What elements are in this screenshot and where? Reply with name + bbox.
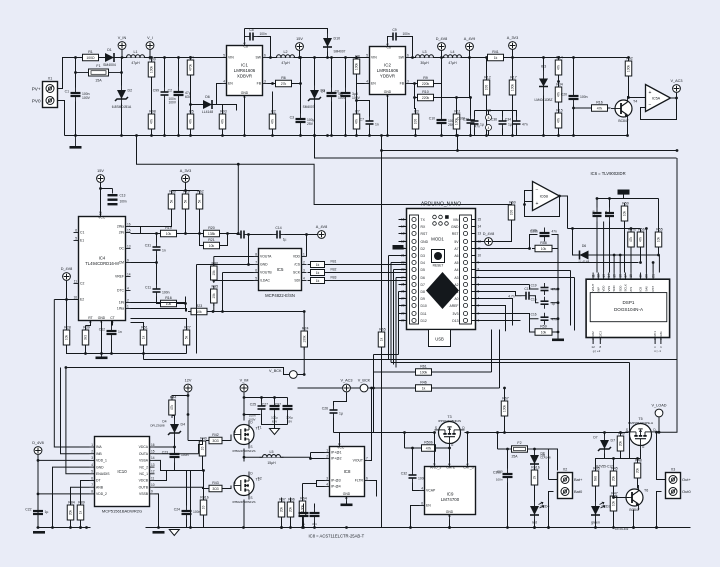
svg-text:13: 13 (478, 232, 482, 236)
wire C12 up (111, 321, 113, 326)
wire C29 up (314, 504, 316, 508)
wire EN dn (411, 506, 420, 528)
svg-text:ENA/DIS: ENA/DIS (96, 472, 110, 476)
svg-text:VCC: VCC (98, 216, 106, 220)
resistor R44 (169, 396, 177, 419)
svg-text:11: 11 (151, 476, 155, 480)
svg-text:YDBVR: YDBVR (380, 74, 395, 79)
wire VOUTA to R96 (213, 257, 215, 266)
junction (557, 80, 560, 83)
wire disp bottom stub (660, 338, 662, 345)
svg-text:100k: 100k (627, 65, 631, 73)
junction (242, 526, 245, 529)
svg-text:1µ: 1µ (508, 123, 512, 127)
wire D8 to R51 (534, 469, 536, 470)
wire A_3V3 stub (512, 50, 514, 58)
resistor R98 (148, 110, 156, 133)
svg-text:6k8: 6k8 (594, 476, 598, 481)
wire C26 dn (333, 418, 335, 433)
wire arduino right stub (472, 226, 476, 228)
junction (533, 448, 536, 451)
svg-text:C99: C99 (153, 89, 159, 93)
wire FLTR dn (370, 481, 377, 497)
wire y362 run (391, 362, 630, 364)
svg-text:C25: C25 (250, 403, 256, 407)
svg-text:10: 10 (478, 254, 482, 258)
junction (528, 247, 531, 250)
svg-text:D4: D4 (421, 261, 425, 265)
wire 1INa row (131, 309, 187, 312)
svg-text:138k: 138k (208, 232, 216, 236)
wire ANODE up (434, 433, 436, 462)
wire R41 to right (505, 57, 573, 59)
junction (177, 134, 180, 137)
wire disp VDD up (603, 222, 605, 273)
wire R48 to T6 collector (637, 479, 639, 489)
wire disp RST up (658, 255, 660, 273)
svg-text:47µH: 47µH (131, 61, 140, 65)
svg-text:DFLZ9188: DFLZ9188 (150, 424, 165, 428)
junction (636, 457, 639, 460)
svg-text:C3: C3 (290, 116, 294, 120)
junction (456, 134, 459, 137)
wire R51 col down (143, 354, 145, 360)
svg-text:GND: GND (98, 316, 106, 320)
wire C20b left (530, 235, 538, 249)
wire R27 dn (186, 346, 188, 354)
capacitor C9 (389, 28, 401, 41)
capacitor C36 (491, 117, 512, 129)
diode D1 (101, 48, 119, 67)
wire F2 to X2 (535, 449, 558, 471)
wire C30 dn (474, 129, 476, 136)
svg-text:C6: C6 (335, 90, 339, 94)
capacitor C29 (310, 508, 320, 522)
svg-text:R96: R96 (288, 498, 295, 502)
wire C99 to gnd (164, 100, 166, 136)
wire T1 drain up (243, 415, 245, 421)
svg-text:47k: 47k (629, 236, 633, 242)
svg-text:D11: D11 (421, 312, 427, 316)
wire R57 up (630, 229, 632, 232)
resistor R89 (77, 501, 85, 524)
svg-text:LMR61606: LMR61606 (234, 68, 256, 73)
transistor T4 (611, 96, 637, 123)
wire arduino left stub (399, 277, 407, 279)
wire X1 to R1 (58, 58, 83, 89)
junction (571, 227, 574, 230)
node V_BCK (289, 371, 297, 379)
wire VSSB dn (155, 494, 159, 528)
wire C19 left (530, 285, 539, 290)
wire arduino left stub (399, 255, 407, 257)
IC IC10 (90, 437, 155, 507)
svg-text:LL4148: LL4148 (541, 456, 551, 460)
svg-text:VOUT: VOUT (591, 283, 595, 291)
resistor R42 (206, 433, 225, 444)
svg-text:100: 100 (414, 119, 418, 125)
junction (645, 227, 648, 230)
svg-text:20: 20 (645, 274, 649, 278)
svg-text:GATE: GATE (446, 466, 456, 470)
junction (619, 254, 622, 257)
wire R45 up (613, 459, 615, 471)
node 15V (97, 169, 105, 182)
wire T4 emitter dn (627, 121, 629, 136)
LED LED4 (530, 502, 550, 520)
wire arduino right stub (472, 262, 476, 264)
wire IC2 top to C9 (388, 37, 389, 42)
resistor R50 (621, 202, 629, 225)
svg-text:R16: R16 (165, 296, 172, 300)
svg-text:100n: 100n (120, 200, 127, 204)
wire x629 dn to T5 gate node (629, 363, 631, 459)
svg-text:GND: GND (343, 492, 351, 496)
resistor R21 (201, 238, 223, 249)
resistor R93 (219, 110, 227, 133)
resistor R95 (592, 467, 600, 490)
svg-text:R96: R96 (212, 262, 219, 266)
resistor R12 (483, 76, 491, 99)
wire D4 dn (174, 438, 176, 449)
wire C100 up (470, 98, 472, 116)
junction (305, 233, 308, 236)
svg-text:D6: D6 (582, 244, 586, 248)
svg-text:6: 6 (366, 476, 368, 480)
wire R16 left (574, 107, 591, 109)
wire R17 up (512, 58, 514, 80)
wire arduino right stub (472, 233, 476, 235)
junction (355, 56, 358, 59)
wire disp pin up2 (619, 255, 621, 273)
svg-text:CT: CT (110, 316, 115, 320)
junction (298, 56, 301, 59)
wire 2INa link (131, 227, 141, 234)
wire R61 right (433, 371, 492, 373)
wire disp pin up4 (652, 263, 654, 273)
wire R51 up (131, 323, 144, 330)
wire link c26 (334, 432, 341, 434)
wire R51 to LED4 (534, 486, 536, 502)
svg-text:RT: RT (88, 316, 92, 320)
svg-text:DSP1: DSP1 (622, 300, 634, 305)
junction (157, 526, 160, 529)
wire 12V col dn (187, 415, 189, 441)
node A_4V8 (316, 225, 327, 238)
junction (344, 56, 347, 59)
node D_4V8 (61, 267, 73, 280)
svg-text:SDI: SDI (294, 279, 300, 283)
junction (558, 195, 561, 198)
wire IC5A feedback (641, 98, 677, 120)
wire FB to R2 (272, 92, 274, 114)
LED LED4 arrows (539, 502, 543, 504)
fuse F1 (76, 64, 122, 83)
wire IC8 VCC up (339, 433, 341, 442)
wire IC1 EN down to D6 node (217, 84, 222, 105)
wire C26 top link (334, 398, 347, 406)
svg-text:R41b: R41b (200, 496, 209, 500)
svg-text:63V: 63V (185, 95, 192, 99)
wire R3 to FB node (415, 98, 416, 114)
jumper block (393, 245, 404, 250)
wire to T5 gate (621, 450, 641, 459)
wire R52 to T4 collector (628, 77, 629, 98)
svg-text:16: 16 (151, 443, 155, 447)
svg-text:4: 4 (488, 126, 490, 130)
svg-text:R28: R28 (64, 326, 71, 330)
svg-text:R10: R10 (422, 90, 429, 94)
ground display caps (552, 339, 564, 342)
junction (676, 149, 679, 152)
svg-text:R7: R7 (355, 110, 360, 114)
svg-text:47n: 47n (552, 318, 558, 322)
wire local gnd bus (175, 470, 203, 472)
svg-text:11: 11 (74, 279, 78, 283)
wire X3 pin1 (662, 479, 666, 481)
wire R16 right (178, 303, 186, 305)
wire SW out (411, 57, 416, 59)
junction (455, 96, 458, 99)
svg-text:3V3: 3V3 (452, 312, 458, 316)
wire VIOUT up to V_BCK node (370, 388, 372, 461)
wire 1IN row (131, 302, 186, 304)
resistor R51 bottom (531, 466, 540, 489)
wire R56 dn (640, 248, 642, 263)
capacitor C32 (401, 471, 426, 483)
wire row8 drop (570, 271, 572, 326)
svg-text:2IN: 2IN (119, 231, 125, 235)
wire R6 to SW node (295, 58, 301, 84)
svg-text:100n: 100n (260, 32, 267, 36)
wire V_I stub (149, 50, 151, 58)
junction (79, 526, 82, 529)
wire D1 to L1 (119, 57, 151, 59)
wire disp bottom stub (592, 338, 594, 345)
wire R65 dn to rail (381, 348, 383, 528)
svg-text:4: 4 (421, 486, 423, 490)
wire R95 dn (213, 303, 215, 312)
svg-text:R50: R50 (622, 202, 629, 206)
junction (135, 134, 138, 137)
svg-text:R62: R62 (197, 190, 204, 194)
junction (533, 526, 536, 529)
svg-text:100n: 100n (193, 510, 201, 514)
resistor R10 (415, 90, 437, 101)
svg-text:IP+@2: IP+@2 (331, 457, 342, 461)
wire VOUTB left (223, 272, 254, 274)
svg-text:GND: GND (241, 91, 249, 95)
IC5 power pin 8 (486, 115, 492, 121)
svg-text:/CS: /CS (294, 263, 300, 267)
svg-text:12V: 12V (185, 379, 192, 383)
junction (639, 261, 642, 264)
wire F2 to X2 corner (535, 449, 549, 471)
node V_BCK probe2 (358, 379, 371, 392)
svg-text:R55: R55 (656, 228, 663, 232)
svg-text:C36: C36 (491, 118, 497, 122)
resistor R16 (589, 100, 611, 111)
junction (523, 203, 526, 206)
svg-text:−: − (649, 102, 652, 108)
svg-text:IP-@4: IP-@4 (331, 485, 341, 489)
wire C5 node up (244, 29, 246, 37)
junction (413, 82, 416, 85)
svg-text:R98: R98 (149, 110, 156, 114)
svg-text:C31: C31 (145, 244, 151, 248)
wire row14 to C16 (476, 314, 539, 319)
wire bottom gnd link (67, 346, 187, 354)
wire R9 to D_4V8 node (437, 58, 442, 84)
capacitor C14a (237, 231, 249, 239)
wire C17 to C15 (534, 296, 539, 303)
svg-text:4: 4 (91, 463, 93, 467)
wire C5 to SW node (258, 37, 271, 58)
svg-text:C9: C9 (392, 28, 396, 32)
svg-text:L2: L2 (284, 50, 288, 54)
wire C14 mid dn to IC5 GND row (248, 235, 250, 265)
wire R27 up (131, 319, 187, 330)
wire top link to D10 (245, 29, 328, 34)
wire IC5A out to V_AC3 (671, 93, 677, 98)
junction (594, 526, 597, 529)
svg-text:R51: R51 (141, 326, 148, 330)
svg-text:D6: D6 (205, 95, 210, 99)
wire C21 dn (609, 222, 611, 273)
junction (411, 447, 414, 450)
wire V_BCK right link (298, 374, 305, 376)
junction (69, 526, 72, 529)
resistor R19 (158, 226, 180, 237)
wire C24 dn (186, 520, 188, 528)
svg-text:30µH: 30µH (420, 61, 429, 65)
inductor L1 (124, 50, 148, 65)
LED LED2 (591, 502, 611, 520)
wire R4 to R5 (190, 76, 192, 114)
wire IC9 GND dn (449, 520, 451, 528)
wire gnd bus dn (190, 471, 192, 528)
wire C19 right (551, 288, 559, 290)
svg-text:FB2: FB2 (331, 268, 337, 272)
junction (237, 232, 240, 235)
svg-text:C97: C97 (275, 403, 281, 407)
wire R89 dn (80, 521, 82, 528)
svg-text:MCP51561BADWR2G: MCP51561BADWR2G (102, 509, 142, 514)
wire D6 to R93 (217, 105, 223, 114)
junction (37, 526, 40, 529)
svg-text:13: 13 (602, 274, 606, 278)
junction (326, 134, 329, 137)
wire R29 node dn (185, 297, 187, 312)
svg-text:4.7n: 4.7n (508, 295, 514, 299)
resistor R96 (287, 498, 295, 521)
wire arduino right stub (472, 320, 476, 322)
junction (608, 197, 611, 200)
svg-text:MMPW62003PE-H: MMPW62003PE-H (628, 421, 653, 425)
svg-text:FB3: FB3 (331, 276, 337, 280)
svg-text:47µH: 47µH (448, 61, 457, 65)
junction (372, 387, 375, 390)
wire y228 run (568, 228, 641, 230)
wire LDAC left (214, 280, 254, 282)
resistor R27 (183, 326, 191, 349)
svg-text:3k3: 3k3 (84, 335, 88, 340)
svg-text:E2: E2 (80, 298, 84, 302)
wire C14 mid (249, 234, 273, 236)
wire bus ext (654, 198, 659, 200)
wire arduino right stub (472, 241, 476, 243)
svg-text:V_IM: V_IM (240, 379, 249, 383)
junction (120, 71, 123, 74)
wire GND left (197, 264, 254, 266)
wire R51 dn (143, 346, 145, 354)
wire VDCA to D4 node (155, 446, 175, 448)
svg-text:25A: 25A (511, 455, 518, 459)
svg-text:1k: 1k (494, 56, 498, 60)
wire row9 run (476, 277, 575, 279)
wire R48 up (637, 459, 639, 463)
resistor R95 mid (211, 285, 219, 307)
svg-text:CAT_D: CAT_D (463, 466, 474, 470)
transistor T6 (622, 485, 648, 512)
junction (221, 310, 224, 313)
wire arduino left stub (399, 291, 407, 293)
svg-text:D13: D13 (452, 319, 458, 323)
wire R95 up (596, 459, 605, 471)
svg-text:2: 2 (326, 454, 328, 458)
svg-text:V_AC3: V_AC3 (340, 379, 352, 383)
wire V_IM node right (244, 414, 261, 416)
svg-text:F2: F2 (517, 441, 521, 445)
capacitor C28 (299, 508, 309, 522)
wire L4 onward (461, 57, 487, 59)
junction (496, 431, 499, 434)
wire X3 pin1 ext (658, 479, 662, 481)
wire IC4 GND dn (101, 321, 103, 353)
wire R41b dn (203, 516, 205, 528)
svg-text:100n: 100n (580, 95, 588, 99)
svg-text:220k: 220k (422, 96, 430, 100)
wire IC8 GND dn (346, 502, 348, 504)
wire C16 right (551, 318, 559, 320)
wire IC4 E2 left (54, 299, 78, 301)
svg-text:ARDUINO_NANO: ARDUINO_NANO (421, 202, 461, 208)
svg-text:D2: D2 (128, 89, 133, 93)
wire R21 right up (221, 234, 228, 246)
svg-text:2k: 2k (533, 475, 537, 479)
wire arduino right stub (472, 284, 476, 286)
junction (302, 526, 305, 529)
junction (503, 431, 506, 434)
svg-text:3: 3 (303, 268, 305, 272)
wire arduino left bundle link (398, 291, 400, 293)
svg-text:VOUTA: VOUTA (260, 255, 272, 259)
wire R5 to gnd (190, 130, 192, 136)
wire T1 source dn (243, 449, 245, 462)
svg-text:15: 15 (478, 218, 482, 222)
svg-text:R5: R5 (189, 110, 194, 114)
junction (542, 134, 545, 137)
svg-text:OUTB: OUTB (139, 485, 149, 489)
resistor R15 (555, 109, 563, 132)
resistor R3 (412, 110, 419, 133)
wire 15V stub (299, 51, 301, 58)
svg-text:6: 6 (421, 501, 423, 505)
svg-text:R17: R17 (510, 76, 517, 80)
svg-text:A6: A6 (454, 254, 458, 258)
svg-text:ICB: ICB (639, 287, 643, 292)
junction (380, 149, 383, 152)
